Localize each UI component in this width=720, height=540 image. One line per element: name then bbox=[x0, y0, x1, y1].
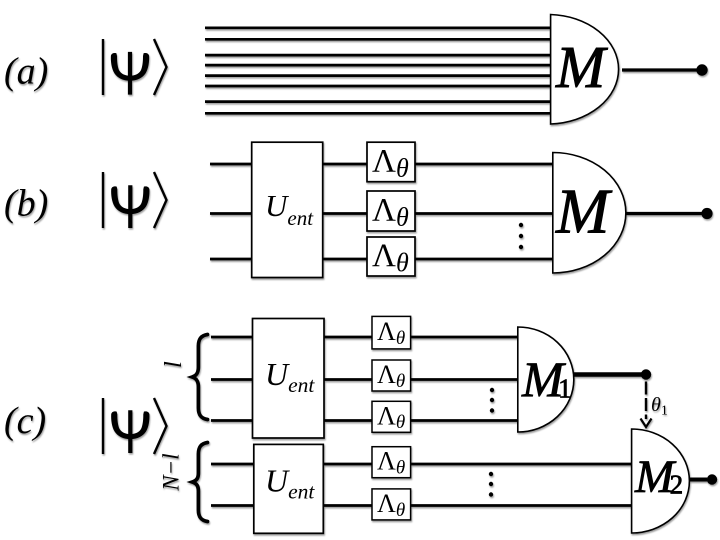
brace bottom group bbox=[192, 443, 207, 522]
output dot (b) bbox=[701, 208, 712, 219]
wire c-top1 left bbox=[211, 336, 254, 339]
vertical dots (c bottom) bbox=[489, 472, 493, 497]
wire b1 mid bbox=[323, 163, 368, 166]
wire b3 left bbox=[210, 258, 253, 261]
U_ent box (c top) bbox=[253, 319, 325, 439]
wire c-top1 mid bbox=[324, 336, 373, 339]
wire c-bot2 mid bbox=[323, 504, 373, 507]
wire a4 bbox=[205, 64, 552, 67]
wire b1 left bbox=[210, 163, 253, 166]
measurement M1 bbox=[518, 327, 574, 432]
brace top group bbox=[192, 335, 207, 420]
Lambda_theta box c3 bbox=[372, 401, 411, 433]
wire c-top3 left bbox=[211, 419, 254, 422]
wire b2 left bbox=[210, 212, 253, 215]
measurement M2 bbox=[632, 429, 690, 533]
wire b2 right bbox=[415, 212, 554, 215]
U_ent box (b) bbox=[252, 142, 323, 277]
wire c-top3 mid bbox=[324, 419, 373, 422]
output wire M2 bbox=[689, 478, 707, 482]
dashed feedback arrow theta1 bbox=[641, 382, 652, 428]
measurement M (a) bbox=[551, 15, 619, 125]
Lambda_theta box c2 bbox=[372, 360, 411, 392]
wire a8 bbox=[205, 112, 552, 115]
wire a1 bbox=[205, 26, 552, 29]
svg-text:l: l bbox=[161, 361, 187, 368]
wire a5 bbox=[205, 74, 552, 77]
ket |psi> state (b) bbox=[103, 172, 167, 228]
wire c-top1 right bbox=[411, 336, 519, 339]
vertical dots (b) bbox=[519, 223, 523, 249]
wire c-top2 right bbox=[411, 378, 519, 381]
output dot M2 bbox=[707, 474, 717, 484]
wire c-bot1 left bbox=[211, 463, 255, 466]
wire c-bot2 right bbox=[411, 504, 632, 507]
svg-text:(a): (a) bbox=[4, 51, 48, 93]
wire a3 bbox=[205, 54, 552, 57]
wire b3 right bbox=[415, 258, 554, 261]
wire c-bot1 right bbox=[411, 463, 632, 466]
output wire (a) bbox=[622, 68, 701, 71]
wire c-top2 left bbox=[211, 378, 254, 381]
Lambda_theta box b3 bbox=[367, 237, 415, 277]
measurement M (b) bbox=[553, 153, 626, 274]
svg-text:M: M bbox=[555, 34, 608, 100]
wire c-bot1 mid bbox=[323, 463, 373, 466]
svg-text:M: M bbox=[555, 175, 613, 246]
output dot (a) bbox=[696, 64, 707, 75]
wire c-top3 right bbox=[411, 419, 519, 422]
wire a7 bbox=[205, 100, 552, 103]
output wire M1 bbox=[574, 372, 646, 377]
Lambda_theta box c5 bbox=[372, 489, 411, 521]
Lambda_theta box c4 bbox=[372, 447, 411, 479]
wire b2 mid bbox=[323, 212, 368, 215]
svg-text:(b): (b) bbox=[4, 183, 48, 225]
ket |psi> state (a) bbox=[103, 39, 167, 95]
wire b3 mid bbox=[323, 258, 368, 261]
Lambda_theta box b1 bbox=[367, 142, 415, 182]
ket |psi> state (c) bbox=[103, 398, 167, 454]
output wire (b) bbox=[626, 212, 702, 215]
Lambda_theta box b2 bbox=[367, 191, 415, 232]
wire a6 bbox=[205, 85, 552, 88]
wire a2 bbox=[205, 38, 552, 41]
wire b1 right bbox=[415, 163, 554, 166]
vertical dots (c top) bbox=[490, 388, 494, 413]
svg-text:(c): (c) bbox=[4, 400, 46, 442]
U_ent box (c bottom) bbox=[254, 444, 323, 533]
Lambda_theta box c1 bbox=[372, 316, 411, 349]
wire c-bot2 left bbox=[211, 504, 255, 507]
svg-text:N−l: N−l bbox=[159, 453, 184, 491]
wire c-top2 mid bbox=[324, 378, 373, 381]
output dot M1 bbox=[641, 369, 651, 379]
